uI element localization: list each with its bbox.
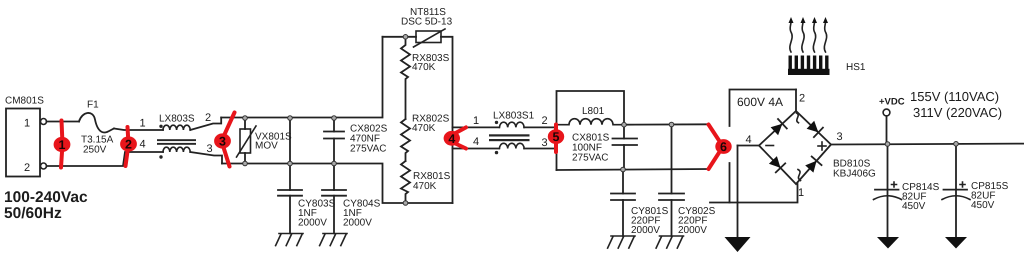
svg-text:L801: L801 [582, 106, 605, 117]
top rail (line A) [221, 37, 382, 118]
bottom rail right section [557, 169, 710, 170]
wire choke2 pin2 to node5 [524, 126, 556, 128]
diode D-topleft [771, 119, 787, 135]
minus mark [766, 145, 774, 147]
svg-text:2000V: 2000V [343, 218, 372, 229]
power ground (CP814S) [877, 237, 899, 249]
connector CM801S [5, 96, 47, 177]
bridge rectifier BD810S diamond [738, 90, 843, 200]
capacitor CY802S [659, 125, 716, 237]
capacitor CP814S [874, 144, 940, 237]
varistor VX801S [237, 118, 293, 164]
svg-text:1: 1 [140, 118, 146, 130]
svg-text:155V (110VAC): 155V (110VAC) [910, 89, 999, 104]
label BD810S KBJ406G [833, 159, 876, 180]
wire bridge minus to power ground [737, 146, 739, 238]
svg-text:50/60Hz: 50/60Hz [4, 205, 62, 222]
svg-text:4: 4 [746, 134, 752, 146]
svg-text:2000V: 2000V [298, 218, 327, 229]
svg-text:100-240Vac: 100-240Vac [4, 189, 88, 206]
power ground (bridge) [725, 237, 751, 252]
inductor L801 [557, 119, 625, 125]
node dots output [885, 142, 890, 147]
svg-text:4: 4 [140, 139, 146, 151]
fuse F1 [79, 100, 114, 156]
svg-text:450V: 450V [902, 201, 926, 212]
wire choke2 pin3 to node5 [524, 148, 556, 150]
svg-text:MOV: MOV [255, 141, 278, 152]
highlight 5 [548, 125, 564, 153]
svg-text:HS1: HS1 [846, 62, 866, 73]
svg-text:4: 4 [448, 132, 455, 146]
svg-text:275VAC: 275VAC [572, 153, 609, 164]
thermistor NT811S [383, 7, 453, 203]
highlight 3 [214, 113, 234, 167]
svg-text:3: 3 [207, 143, 213, 155]
power ground (CP815S) [945, 237, 967, 249]
svg-text:470K: 470K [412, 62, 436, 73]
wire node4 to choke2 pin1 [453, 126, 500, 128]
capacitor CX801S [572, 125, 637, 170]
common-mode choke LX803S1 [473, 111, 548, 155]
node NTC top [403, 35, 408, 40]
svg-text:470K: 470K [412, 123, 436, 134]
L801 loop box [557, 91, 625, 170]
ac mark bottom [798, 170, 801, 181]
svg-text:1: 1 [24, 118, 30, 130]
resistor RX803S [401, 37, 450, 119]
svg-text:2000V: 2000V [678, 225, 707, 236]
heatsink HS1 [788, 17, 866, 75]
ac mark top [797, 113, 799, 123]
svg-text:3: 3 [219, 135, 226, 149]
output rail [831, 143, 1024, 146]
ground (CY802S) [656, 236, 683, 248]
capacitor CY801S [611, 170, 669, 237]
ground (CY801S) [608, 236, 635, 248]
svg-text:2: 2 [125, 138, 132, 152]
top rail right section [624, 123, 709, 125]
label 100-240Vac 50/60Hz [4, 189, 88, 222]
diode D-bottomright [805, 157, 821, 173]
svg-text:6: 6 [720, 140, 727, 154]
label 155V 311V [910, 89, 1002, 120]
svg-text:1: 1 [59, 138, 66, 152]
highlight 2 [120, 127, 137, 166]
bridge module box [710, 90, 798, 203]
node chain bottom [403, 201, 408, 206]
svg-text:4: 4 [473, 136, 479, 148]
ground (CY803S) [276, 234, 303, 246]
wire pin1 to fuse [47, 121, 80, 123]
svg-text:1: 1 [798, 187, 804, 199]
svg-text:311V (220VAC): 311V (220VAC) [913, 105, 1002, 120]
svg-text:LX803S: LX803S [159, 114, 195, 125]
node dots right filter [622, 122, 627, 127]
svg-text:1: 1 [473, 115, 479, 127]
highlight 6 [709, 125, 732, 170]
capacitor CY804S [322, 164, 381, 234]
+VDC terminal [879, 97, 905, 145]
svg-text:DSC 5D-13: DSC 5D-13 [401, 17, 453, 28]
svg-text:2000V: 2000V [631, 225, 660, 236]
svg-text:250V: 250V [83, 145, 107, 156]
svg-text:LX803S1: LX803S1 [493, 111, 535, 122]
wire fuse to choke pin1 [114, 129, 163, 131]
svg-text:F1: F1 [87, 100, 99, 111]
common-mode choke LX803S [140, 112, 213, 159]
svg-text:450V: 450V [971, 200, 995, 211]
svg-text:CM801S: CM801S [5, 96, 44, 107]
wire node4 to choke2 pin4 [453, 148, 500, 150]
svg-text:2: 2 [24, 162, 30, 174]
svg-text:KBJ406G: KBJ406G [833, 169, 876, 180]
capacitor CY803S [278, 118, 336, 233]
bottom rail (line B) [222, 164, 453, 204]
svg-text:2: 2 [799, 93, 805, 105]
wire pin2 to choke pin4 [47, 152, 164, 166]
svg-text:+VDC: +VDC [879, 97, 905, 108]
resistor RX802S [401, 114, 450, 162]
node dots middle section [243, 116, 248, 121]
diode D-topright [807, 121, 823, 137]
wire choke pin2 stub [190, 118, 221, 131]
svg-text:470K: 470K [413, 181, 437, 192]
resistor RX801S [401, 161, 451, 203]
capacitor CP815S [942, 144, 1009, 237]
svg-text:2: 2 [542, 115, 548, 127]
svg-text:600V 4A: 600V 4A [737, 95, 783, 109]
wire choke pin3 stub [190, 152, 222, 164]
diode D-bottomleft [769, 156, 785, 172]
highlight 1 [54, 121, 71, 168]
svg-text:2: 2 [205, 112, 211, 124]
svg-text:3: 3 [542, 137, 548, 149]
ground (CY804S) [320, 234, 347, 246]
plus mark [818, 142, 826, 150]
capacitor CX802S [324, 118, 388, 164]
highlight 4 [444, 127, 466, 148]
svg-text:275VAC: 275VAC [350, 144, 387, 155]
svg-text:3: 3 [837, 131, 843, 143]
svg-text:5: 5 [553, 130, 560, 144]
